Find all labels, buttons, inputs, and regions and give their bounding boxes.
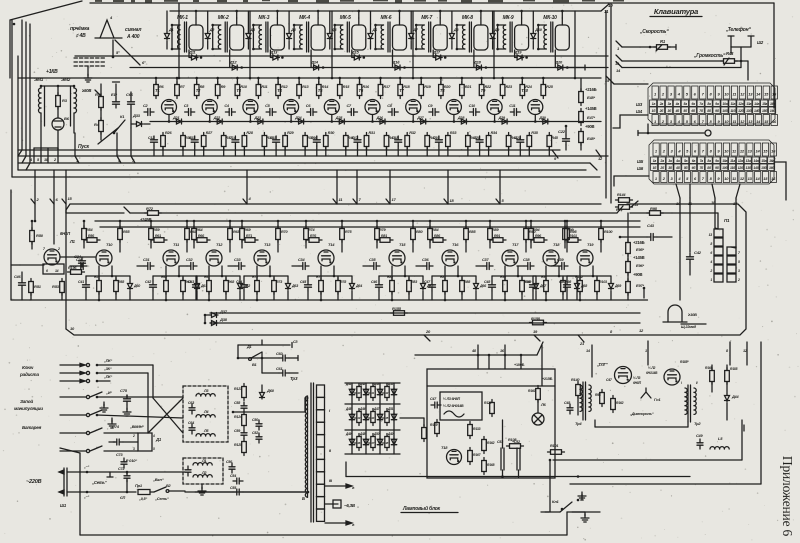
- svg-text:С72: С72: [118, 467, 125, 471]
- label set1: [91, 472, 113, 485]
- svg-text:МК-10: МК-10: [543, 15, 557, 21]
- svg-text:R117: R117: [368, 441, 375, 445]
- diode D22: [213, 116, 224, 124]
- svg-text:„~“: „~“: [83, 495, 89, 499]
- resistor R23: [500, 78, 513, 99]
- filter box 2: [183, 458, 223, 484]
- svg-text:„ВМИН“: „ВМИН“: [129, 425, 144, 429]
- svg-text:13а: 13а: [746, 102, 751, 106]
- svg-text:С42: С42: [694, 250, 702, 255]
- svg-text:R48: R48: [726, 51, 734, 56]
- wire bus y221: [95, 220, 640, 222]
- capacitor C7: [347, 104, 358, 116]
- node 15 entry stub: [62, 170, 73, 204]
- tube Т13: [254, 242, 271, 266]
- resistor R71 anode: [242, 234, 258, 242]
- resistor R158: [530, 316, 547, 325]
- connector P1: [709, 218, 741, 282]
- svg-text:П1: П1: [724, 218, 730, 223]
- tube T4: [277, 88, 299, 115]
- wire jack to grid: [747, 61, 749, 80]
- resistor R24: [520, 78, 533, 99]
- svg-text:2: 2: [57, 247, 60, 251]
- svg-text:С10: С10: [469, 104, 476, 108]
- diode D20 output: [554, 60, 568, 71]
- node 5 entry stub: [496, 170, 505, 204]
- resistor R129: [368, 384, 375, 401]
- resistor R27: [201, 131, 213, 156]
- resistor R61 anode: [151, 234, 167, 242]
- resistor R45: [547, 133, 559, 157]
- wire stage 6: [358, 77, 382, 123]
- potentiometer R48: [622, 47, 748, 65]
- resistor R101: [548, 444, 565, 454]
- label +1KV: [46, 69, 58, 75]
- svg-text:R89: R89: [492, 228, 499, 232]
- resistor R51: [29, 279, 42, 301]
- svg-text:R10: R10: [240, 85, 247, 89]
- svg-text:~220В: ~220В: [26, 479, 42, 485]
- resistor R155: [391, 306, 408, 315]
- resistor R19: [419, 78, 432, 99]
- wire stage 3: [236, 77, 260, 123]
- diode D64: [350, 276, 363, 300]
- wire stub6 drop: [53, 204, 55, 244]
- resistor R108: [507, 438, 524, 448]
- svg-text:Щ 22мкд: Щ 22мкд: [681, 325, 697, 329]
- capacitor C8: [387, 104, 398, 116]
- node 21 stub: [578, 335, 585, 346]
- resistor E48: [579, 78, 597, 106]
- wire tr3 left lead: [195, 398, 309, 493]
- svg-text:15а: 15а: [761, 159, 766, 163]
- ground sw1: [100, 402, 108, 412]
- svg-text:R54: R54: [86, 228, 93, 232]
- svg-text:Д66: Д66: [479, 284, 487, 288]
- svg-text:R158: R158: [531, 316, 541, 321]
- svg-text:+1КВ: +1КВ: [46, 69, 58, 75]
- wire tr4 out bus: [595, 420, 688, 427]
- heater output 6.3V: [325, 484, 356, 527]
- capacitor C41: [78, 276, 90, 300]
- svg-text:3а: 3а: [668, 159, 672, 163]
- resistor R102: [575, 266, 583, 301]
- wire stage 7: [399, 77, 423, 123]
- capacitor C5: [265, 104, 276, 116]
- svg-text:½ Л2: ½ Л2: [648, 366, 655, 370]
- tube T5: [318, 88, 340, 115]
- wire right drop 11: [610, 4, 612, 203]
- capacitor C17: [352, 136, 362, 156]
- wire stage 2: [195, 77, 219, 123]
- svg-text:2а: 2а: [659, 102, 664, 106]
- svg-text:С20: С20: [474, 136, 480, 140]
- svg-text:ЭМ1: ЭМ1: [34, 77, 44, 82]
- resistor R20: [439, 78, 452, 99]
- svg-text:С52: С52: [252, 431, 258, 435]
- svg-text:1а: 1а: [653, 159, 657, 163]
- svg-text:R15: R15: [343, 85, 350, 89]
- svg-text:+216Б: +216Б: [633, 240, 645, 245]
- resistor R62: [161, 266, 168, 301]
- resistor R9: [215, 78, 226, 99]
- switch contact „ПК“: [60, 375, 112, 383]
- tube T1: [155, 88, 177, 115]
- transformer block MK-3: [253, 15, 284, 52]
- wire stage Т18 drop: [533, 266, 577, 277]
- wire feed vertical x250: [249, 11, 252, 79]
- label Telefon: [725, 26, 751, 33]
- svg-text:14а: 14а: [753, 159, 758, 163]
- capacitor C47: [424, 276, 436, 300]
- diode D14 output: [310, 60, 324, 71]
- svg-text:~6,3В: ~6,3В: [344, 503, 356, 508]
- svg-text:R98: R98: [650, 206, 658, 211]
- wire stage Т15 drop: [379, 266, 423, 277]
- resistor R101 anode: [565, 234, 581, 242]
- resistor R96 anode: [531, 234, 547, 242]
- wire MK-10 feed: [561, 10, 564, 18]
- resistor R167: [468, 448, 482, 465]
- svg-text:Клавиатура: Клавиатура: [654, 7, 698, 16]
- resistor R54: [82, 220, 94, 248]
- resistor E47: [579, 106, 597, 126]
- svg-text:Д22: Д22: [213, 116, 221, 120]
- svg-text:Л1: Л1: [69, 239, 76, 244]
- svg-text:R110: R110: [354, 391, 361, 395]
- capacitor C50: [559, 276, 571, 300]
- capacitor C46: [371, 276, 383, 300]
- resistor R123: [234, 384, 246, 401]
- svg-text:С50: С50: [559, 280, 565, 284]
- wire drop x648: [645, 341, 648, 365]
- wire MK-5 feed: [358, 10, 361, 18]
- wire stage Т11 drop: [153, 266, 197, 277]
- wire bus y163: [18, 163, 597, 170]
- svg-text:Д64: Д64: [355, 284, 362, 288]
- diode D13 output: [269, 50, 283, 61]
- svg-text:С30: С30: [76, 258, 83, 262]
- wire input diagonal: [10, 1, 82, 78]
- resistor R74: [304, 220, 316, 248]
- label pusk: [78, 128, 118, 150]
- svg-text:„3К“: „3К“: [103, 367, 112, 371]
- svg-text:R98: R98: [565, 280, 571, 284]
- wire MK-4 feed: [317, 10, 320, 18]
- svg-text:2: 2: [132, 434, 135, 438]
- tube L1: [43, 231, 76, 265]
- ground sw2: [108, 418, 116, 428]
- capacitor C52: [252, 431, 262, 443]
- resistor R185b: [725, 365, 738, 385]
- capacitor C31: [137, 258, 154, 270]
- resistor R168: [482, 458, 495, 475]
- wire feed vertical x575: [574, 11, 577, 79]
- svg-text:Ш3: Ш3: [636, 102, 643, 107]
- svg-text:С18: С18: [392, 136, 398, 140]
- wire drop 11: [688, 198, 693, 252]
- transformer Tr2: [681, 381, 701, 426]
- svg-text:С33: С33: [234, 258, 241, 262]
- diode D38: [204, 315, 228, 326]
- resistor R34: [486, 131, 498, 156]
- diode D1 input: [165, 11, 174, 50]
- svg-text:радиста: радиста: [19, 372, 39, 377]
- wire MK-7 bottom: [432, 50, 434, 58]
- svg-text:R94: R94: [533, 228, 540, 232]
- resistor R53: [52, 279, 64, 301]
- resistor R86 anode: [430, 234, 446, 242]
- diode D44: [725, 382, 740, 420]
- diode Д43: [373, 382, 383, 396]
- capacitor C22: [558, 125, 570, 150]
- svg-text:МК-5: МК-5: [340, 15, 351, 21]
- wire out bus1: [553, 420, 744, 460]
- svg-text:R185: R185: [730, 367, 738, 371]
- capacitor C9: [428, 104, 439, 116]
- wire D20 to tbar: [565, 65, 585, 70]
- capacitor C2: [143, 104, 154, 116]
- wire drop x505: [500, 345, 505, 369]
- svg-text:R28: R28: [246, 131, 253, 135]
- svg-text:Д26: Д26: [376, 116, 384, 120]
- svg-text:Ш2: Ш2: [757, 40, 764, 45]
- svg-text:R124: R124: [234, 415, 242, 419]
- svg-text:Д33: Д33: [132, 113, 141, 118]
- svg-text:R159: R159: [430, 423, 438, 427]
- svg-text:♯ 4В: ♯ 4В: [75, 33, 86, 39]
- resistor R78: [336, 276, 346, 300]
- svg-text:6НО14В: 6НО14В: [646, 371, 658, 375]
- node 6 entry stub: [50, 170, 59, 204]
- capacitor C38: [517, 258, 534, 270]
- svg-text:4: 4: [152, 434, 155, 438]
- svg-text:8а: 8а: [707, 102, 711, 106]
- diode Д50: [373, 432, 383, 446]
- node 4 entry stub: [243, 170, 252, 204]
- wire bus y150: [18, 149, 560, 151]
- svg-text:R91: R91: [494, 234, 500, 238]
- node 15 arrow: [631, 201, 639, 207]
- svg-text:Д68: Д68: [580, 284, 587, 288]
- resistor R162b: [482, 437, 495, 454]
- resistor R132: [368, 409, 375, 426]
- node pin1: [75, 133, 79, 163]
- label batareya: [22, 425, 42, 430]
- svg-text:Д50: Д50: [373, 432, 380, 436]
- resistor R7: [175, 78, 186, 99]
- svg-text:Д38: Д38: [219, 317, 228, 322]
- capacitor C63: [188, 401, 195, 414]
- svg-text:Пр1: Пр1: [135, 483, 143, 488]
- wire feed vertical x494: [493, 11, 496, 79]
- capacitor C24: [74, 254, 86, 267]
- label zapoy manipulyacii: [14, 398, 43, 411]
- diode Д45: [345, 407, 355, 421]
- svg-text:Д44: Д44: [731, 395, 739, 399]
- svg-text:Д46: Д46: [359, 407, 366, 411]
- wire stage Т14 drop: [308, 266, 352, 277]
- resistor R154: [595, 390, 604, 407]
- diode D37: [204, 309, 228, 318]
- svg-text:R85: R85: [469, 230, 476, 234]
- resistor R70: [276, 220, 289, 252]
- rectifier bus lines: [345, 383, 400, 454]
- wire drop x730: [726, 342, 730, 365]
- svg-text:С12: С12: [148, 136, 154, 140]
- svg-text:R120: R120: [484, 401, 492, 405]
- wire intergrid link: [638, 124, 711, 136]
- resistor R10: [235, 78, 248, 99]
- diode Д41: [345, 382, 355, 396]
- svg-text:Д30: Д30: [538, 116, 546, 120]
- svg-text:Д45: Д45: [345, 407, 352, 411]
- capacitor C60t: [276, 352, 298, 361]
- svg-text:С41: С41: [78, 280, 84, 284]
- wire mains top: [67, 465, 185, 473]
- diode D68: [575, 276, 588, 300]
- capacitor C30: [70, 258, 87, 270]
- battery minus contact: [60, 427, 138, 435]
- capacitor C66: [126, 92, 135, 128]
- wire MK-7 feed: [439, 10, 442, 18]
- resistor R92: [500, 266, 507, 301]
- wire bus y170: [18, 169, 586, 171]
- connector grid2 row1 cells: [653, 143, 776, 156]
- svg-text:R116: R116: [354, 441, 361, 445]
- svg-text:С35: С35: [369, 258, 376, 262]
- resistor R31: [364, 131, 375, 156]
- wire stub2 drop: [34, 204, 37, 222]
- svg-text:Д51: Д51: [387, 407, 394, 411]
- svg-text:Д52: Д52: [387, 382, 394, 386]
- resistor R18: [398, 78, 411, 99]
- wire MK-4 bottom: [310, 50, 312, 68]
- svg-text:Ш5: Ш5: [637, 159, 644, 164]
- svg-text:R70: R70: [281, 230, 288, 234]
- tube Т19: [577, 242, 594, 266]
- svg-text:Д63: Д63: [291, 284, 298, 288]
- transformer block MK-8: [457, 15, 488, 52]
- svg-text:Л6: Л6: [540, 402, 547, 407]
- svg-text:15а: 15а: [762, 102, 767, 106]
- svg-text:ЭМ2: ЭМ2: [61, 77, 71, 82]
- diode D25: [335, 116, 346, 124]
- svg-text:Тр4: Тр4: [575, 421, 582, 426]
- diode D16 output: [392, 60, 406, 71]
- svg-text:R51: R51: [34, 284, 42, 289]
- svg-text:9а: 9а: [715, 159, 719, 163]
- svg-text:R22: R22: [485, 85, 492, 89]
- wire stage 5: [318, 77, 342, 123]
- node 7 entry stub: [353, 170, 362, 204]
- svg-text:7а: 7а: [700, 159, 704, 163]
- resistor R98: [630, 206, 672, 215]
- svg-text:Т12: Т12: [216, 242, 223, 247]
- svg-text:МК-3: МК-3: [258, 15, 269, 21]
- capacitor C61f: [185, 466, 191, 476]
- jack Gn1: [629, 388, 661, 416]
- diode D28: [457, 116, 468, 124]
- svg-text:9а: 9а: [715, 102, 719, 106]
- svg-text:10а: 10а: [722, 159, 727, 163]
- svg-text:Л1: Л1: [201, 459, 206, 463]
- capacitor C48: [564, 401, 573, 414]
- tube L1 socket box: [43, 264, 64, 274]
- svg-text:Д42: Д42: [359, 382, 366, 386]
- switch contact S1: [95, 15, 122, 38]
- svg-text:С44: С44: [236, 280, 242, 284]
- svg-text:„Вкл“: „Вкл“: [152, 477, 164, 482]
- fuse Pr1: [135, 483, 154, 501]
- svg-text:Д69: Д69: [614, 284, 621, 288]
- resistor R130: [382, 384, 389, 401]
- svg-text:Т16: Т16: [452, 242, 459, 247]
- svg-text:+216Б: +216Б: [585, 87, 597, 92]
- wire stage Т10 drop: [86, 266, 130, 277]
- diode D18 output: [473, 60, 487, 71]
- svg-text:R17: R17: [384, 85, 391, 89]
- svg-text:R35: R35: [531, 131, 538, 135]
- inductor L3: [196, 389, 215, 396]
- svg-text:R27: R27: [206, 131, 213, 135]
- svg-text:R14: R14: [322, 85, 329, 89]
- wire MK-6 bottom: [392, 50, 394, 68]
- svg-text:R58: R58: [118, 280, 124, 284]
- svg-text:С66: С66: [126, 92, 134, 97]
- svg-text:R64: R64: [196, 228, 203, 232]
- capacitor C35: [363, 258, 380, 270]
- svg-text:R11: R11: [261, 85, 267, 89]
- diode D66: [474, 276, 488, 300]
- svg-text:R168: R168: [487, 463, 495, 467]
- svg-text:С37: С37: [482, 258, 489, 262]
- resistor R21: [460, 78, 472, 99]
- svg-text:R55: R55: [123, 230, 130, 234]
- capacitor C61t: [276, 367, 298, 376]
- svg-text:R59: R59: [153, 228, 160, 232]
- ground stub right: [641, 287, 648, 300]
- svg-text:С38: С38: [523, 258, 530, 262]
- resistor R28: [242, 131, 254, 156]
- resistor R76 anode: [306, 234, 322, 242]
- resistor R100: [599, 220, 614, 252]
- svg-text:Д43: Д43: [373, 382, 380, 386]
- wire bottom border: [60, 448, 567, 535]
- svg-text:R162: R162: [487, 441, 495, 445]
- tube T10: [521, 88, 543, 115]
- svg-text:4а: 4а: [675, 102, 680, 106]
- wire stage 8: [440, 77, 464, 123]
- capacitor C72: [118, 467, 130, 493]
- svg-text:R13: R13: [302, 85, 309, 89]
- node 12: [596, 150, 603, 161]
- wire top band outer border: [12, 20, 600, 177]
- transformer block MK-6: [376, 15, 407, 52]
- diode D30: [538, 116, 549, 124]
- diode D69: [609, 276, 622, 300]
- svg-text:R21: R21: [465, 85, 471, 89]
- svg-text:Запой: Запой: [20, 398, 33, 404]
- switch contact „ПК“: [60, 359, 153, 367]
- svg-text:R185*: R185*: [680, 360, 689, 364]
- resistor R97: [541, 266, 548, 301]
- svg-text:Д21: Д21: [172, 116, 179, 120]
- svg-text:С64: С64: [188, 421, 194, 425]
- resistor R81 anode: [377, 234, 393, 242]
- diode D7 input: [409, 11, 419, 50]
- transformer block MK-4: [294, 15, 325, 52]
